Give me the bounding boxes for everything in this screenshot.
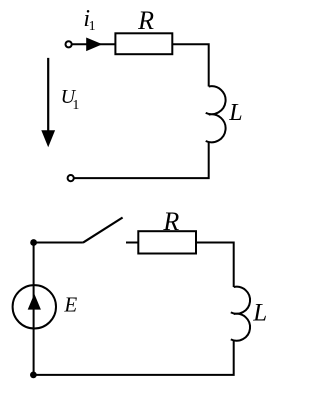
svg-text:1: 1 <box>89 19 96 34</box>
inductor L (top circuit, two bumps) <box>206 86 226 142</box>
wire (switch contact to resistor R) <box>126 242 138 244</box>
svg-text:R: R <box>137 6 154 35</box>
terminal (bottom-left of top circuit, open circle) <box>68 175 74 181</box>
voltage arrow U1 (downward) <box>47 58 49 133</box>
terminal (top-left input, open circle) <box>66 41 72 47</box>
node (bottom circuit, bottom-left junction dot) <box>30 372 37 379</box>
svg-text:L: L <box>228 100 242 126</box>
source E (circle) <box>13 285 56 328</box>
resistor R (top circuit) <box>115 33 172 54</box>
wire (resistor to top-right corner, down to inductor) <box>196 243 234 288</box>
source E arrow (EMF direction, up) <box>28 294 41 310</box>
wire (top: terminal to resistor R) <box>72 43 116 45</box>
wire (left branch through source E) <box>33 243 35 375</box>
wire (node to switch hinge) <box>34 242 83 244</box>
svg-text:E: E <box>63 293 77 317</box>
inductor L (bottom circuit, two bumps) <box>231 287 250 341</box>
wire (inductor down, bottom of top circuit, to terminal) <box>74 142 209 179</box>
current arrow i1 <box>86 38 102 52</box>
switch S (open blade) <box>83 218 123 243</box>
node (bottom circuit, top-left junction dot) <box>30 239 37 246</box>
svg-text:L: L <box>252 299 267 326</box>
wire (resistor R to top-right corner, down to inductor) <box>172 44 208 86</box>
wire (inductor down, bottom wire to left node) <box>33 340 233 375</box>
resistor R (bottom circuit) <box>138 231 196 253</box>
svg-text:R: R <box>162 207 179 236</box>
svg-text:1: 1 <box>72 98 79 113</box>
